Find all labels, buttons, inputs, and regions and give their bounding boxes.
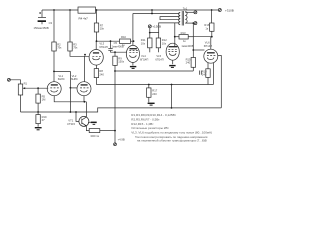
svg-text:C3: C3 <box>49 21 53 25</box>
svg-text:6П14П: 6П14П <box>99 45 107 49</box>
svg-text:240: 240 <box>99 72 104 76</box>
svg-text:VL3..VL6 подобрать по анодному: VL3..VL6 подобрать по анодному току поко… <box>131 130 212 134</box>
svg-text:150к: 150к <box>118 60 124 64</box>
svg-text:на переменной обмотке трансфор: на переменной обмотке трансформатора (7.… <box>137 139 207 143</box>
svg-text:R2,R5,R6,R7 - 0,5Вт: R2,R5,R6,R7 - 0,5Вт <box>131 118 160 122</box>
svg-text:240: 240 <box>202 73 207 77</box>
svg-text:КТ315: КТ315 <box>67 122 75 126</box>
svg-text:1мкх400В: 1мкх400В <box>181 44 193 48</box>
svg-text:R1,R3,R8,R9,R10,R14 - 0,125Вт: R1,R3,R8,R9,R10,R14 - 0,125Вт <box>131 113 176 117</box>
svg-text:150мкх350В: 150мкх350В <box>34 26 49 30</box>
svg-text:47: 47 <box>42 118 45 122</box>
svg-text:6П14П: 6П14П <box>140 58 148 62</box>
svg-text:R20 1к: R20 1к <box>91 134 100 138</box>
svg-text:R4 4к7: R4 4к7 <box>79 17 89 21</box>
svg-text:+150В: +150В <box>152 24 161 28</box>
svg-text:6П14П: 6П14П <box>204 44 212 48</box>
svg-text:+310В: +310В <box>225 8 234 12</box>
svg-text:Остальные резисторы 2Вт: Остальные резисторы 2Вт <box>131 126 169 130</box>
svg-text:240: 240 <box>152 92 157 96</box>
svg-text:6П14П: 6П14П <box>155 58 163 62</box>
svg-text:R10: R10 <box>121 35 126 39</box>
svg-text:6Н8С: 6Н8С <box>58 77 65 81</box>
svg-text:1мкх400В: 1мкх400В <box>112 44 124 48</box>
svg-text:VL6: VL6 <box>205 40 210 44</box>
svg-text:Тр1: Тр1 <box>183 7 188 11</box>
svg-text:240: 240 <box>186 61 191 65</box>
svg-text:R1: R1 <box>24 82 28 86</box>
svg-text:+4,9В: +4,9В <box>118 138 125 142</box>
svg-text:6Н8С: 6Н8С <box>71 77 78 81</box>
svg-text:R13: R13 <box>181 31 186 35</box>
